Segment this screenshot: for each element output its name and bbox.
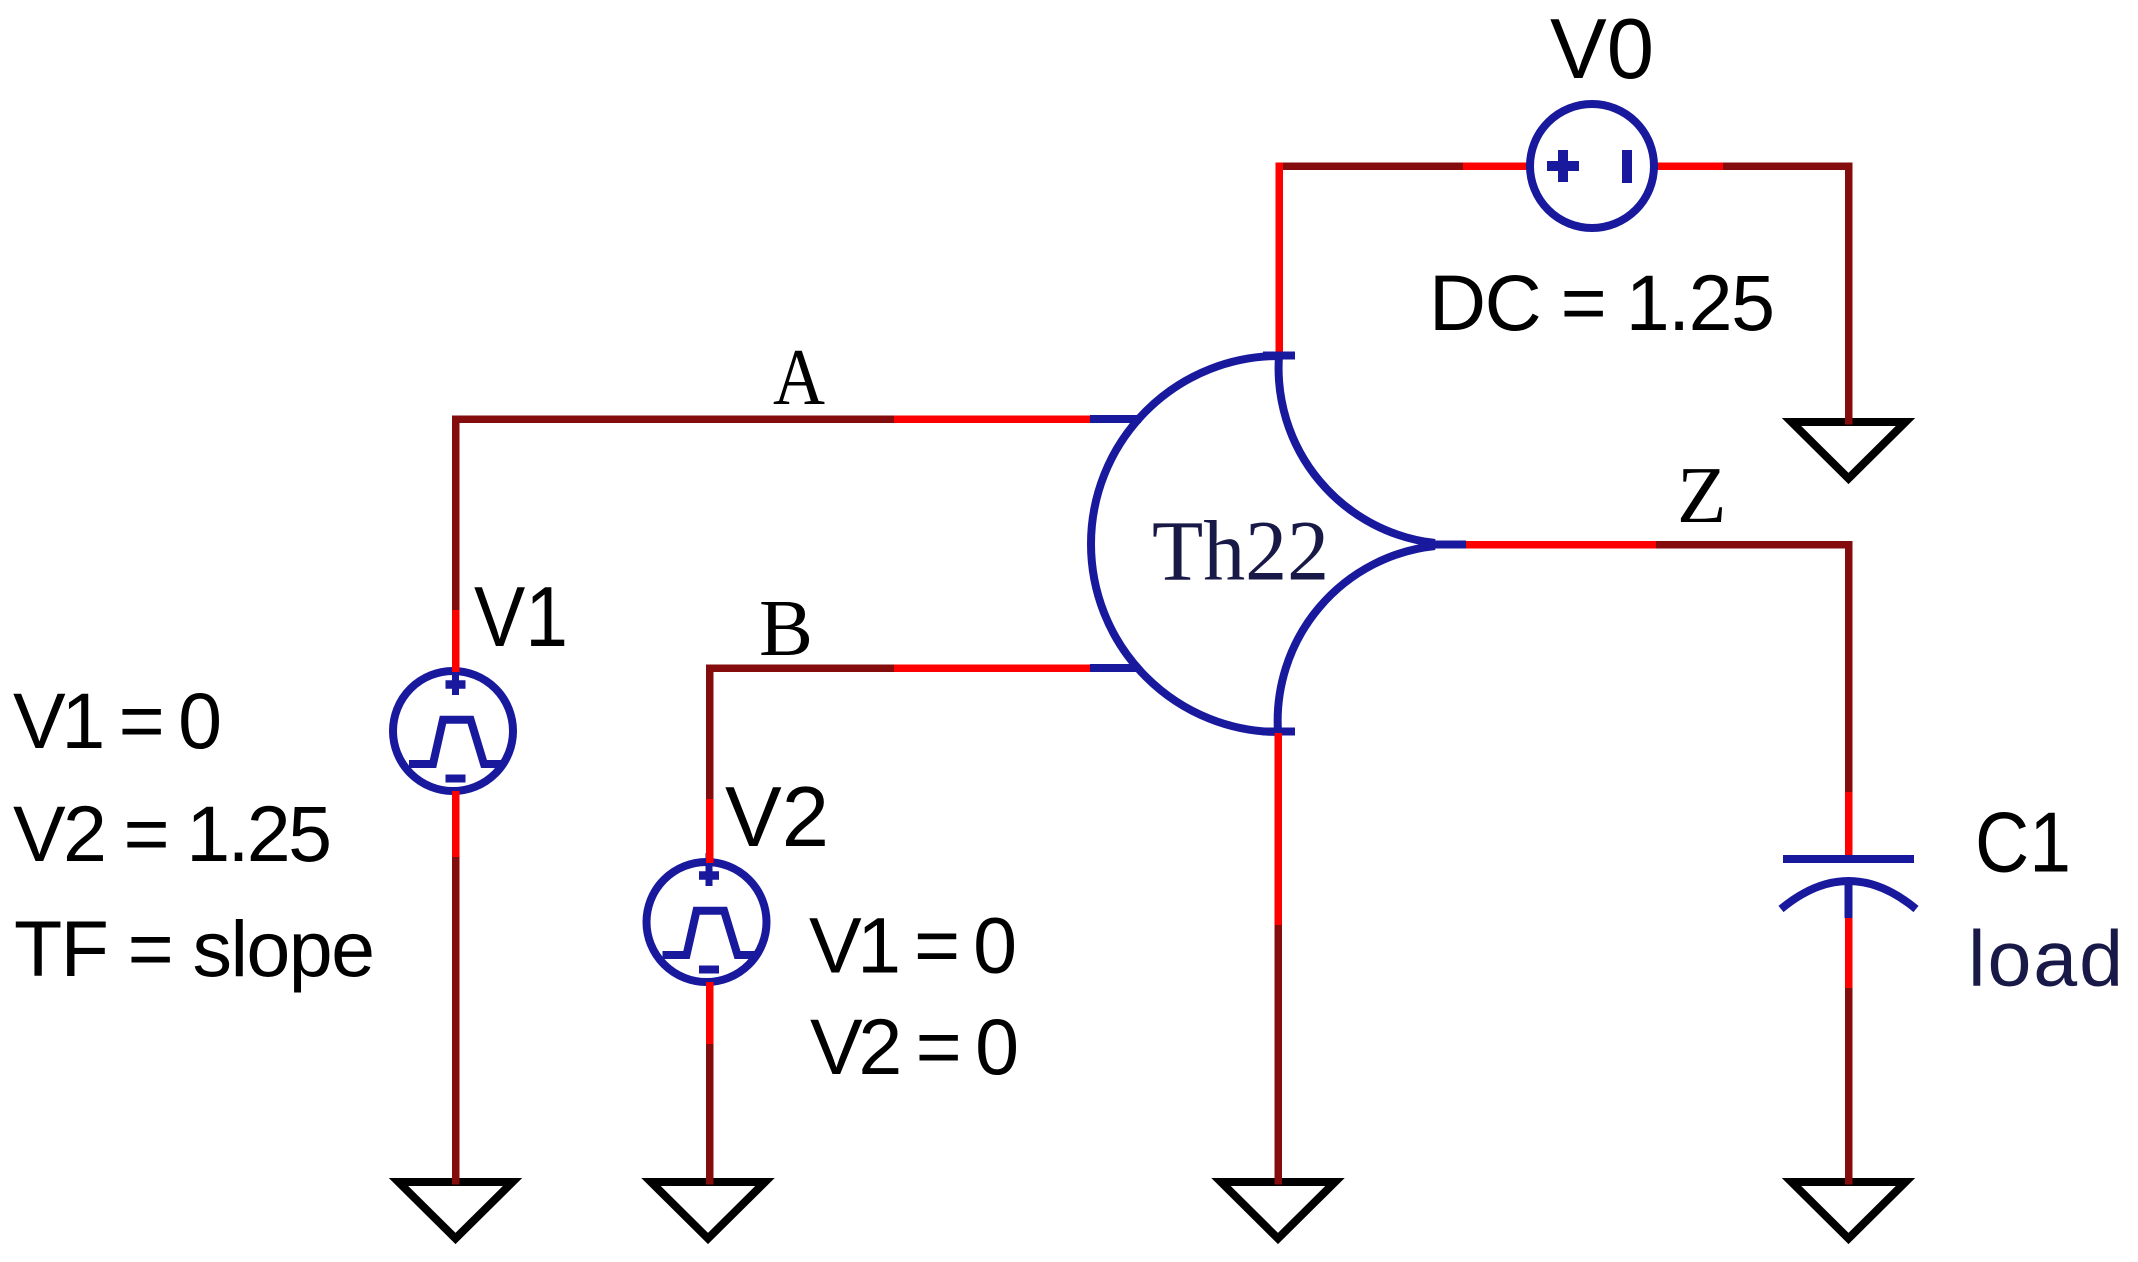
- wire tip: [1845, 416, 1853, 425]
- C1 red top pin: [1845, 792, 1853, 860]
- svg-text:V2: V2: [725, 770, 829, 865]
- wire: red Th22 bottom pin: [1274, 733, 1282, 925]
- ground under V0: [1792, 422, 1906, 479]
- svg-text:C1: C1: [1975, 796, 2071, 891]
- pulse source V2: [647, 853, 767, 982]
- wire A red pin segment: [894, 415, 1090, 423]
- wire tip: [1274, 1176, 1282, 1185]
- wire tip: [452, 1176, 460, 1185]
- V2 red top pin: [706, 799, 714, 863]
- wire A maroon segment with corner to V1: [456, 419, 895, 610]
- wire: maroon from V0 right to ground corner: [1723, 166, 1849, 420]
- svg-text:V2 = 1.25: V2 = 1.25: [13, 789, 332, 878]
- wire Z maroon to corner and down to C1: [1656, 545, 1849, 793]
- svg-text:Z: Z: [1677, 450, 1726, 540]
- wire: red Th22 top pin (vertical): [1275, 163, 1283, 356]
- wire tip: [706, 1176, 714, 1185]
- svg-text:V1 = 0: V1 = 0: [13, 676, 222, 765]
- svg-text:DC = 1.25: DC = 1.25: [1429, 258, 1775, 347]
- C-element Th22 body: [1091, 356, 1466, 733]
- V2 red bottom pin: [706, 982, 714, 1044]
- svg-text:TF = slope: TF = slope: [14, 904, 375, 993]
- wire maroon V2 to ground: [706, 1044, 714, 1180]
- wire: red V0 right pin: [1654, 162, 1723, 170]
- svg-text:V2 = 0: V2 = 0: [810, 1002, 1019, 1091]
- svg-text:A: A: [773, 332, 825, 422]
- wire B maroon segment with corner to V2: [710, 668, 895, 799]
- svg-text:B: B: [759, 583, 813, 673]
- svg-text:load: load: [1968, 914, 2123, 1003]
- svg-text:V1 = 0: V1 = 0: [809, 901, 1017, 990]
- wire tip: [1845, 1176, 1853, 1185]
- pulse source V1: [393, 662, 513, 791]
- ground under V2: [651, 1182, 765, 1239]
- ground under C1: [1792, 1182, 1906, 1239]
- V1 red top pin: [452, 610, 460, 672]
- C1 red bottom pin: [1845, 916, 1853, 988]
- svg-text:V0: V0: [1550, 2, 1654, 97]
- wire maroon V1 to ground: [452, 857, 460, 1180]
- capacitor C1: [1781, 859, 1916, 918]
- wire maroon Th22 bottom to ground: [1274, 925, 1282, 1180]
- wire top net: red V0 left pin: [1463, 162, 1530, 170]
- V1 red bottom pin: [452, 791, 460, 857]
- wire top net: maroon from corner to V0 left: [1279, 162, 1463, 170]
- wire B red pin segment: [894, 664, 1090, 672]
- ground under V1: [399, 1182, 513, 1239]
- voltage source V0: [1530, 104, 1654, 228]
- wire Z: red pin from Th22 tip: [1466, 541, 1656, 549]
- ground under Th22: [1221, 1182, 1335, 1239]
- pin B blue stub of Th22: [1090, 664, 1138, 672]
- svg-text:V1: V1: [474, 570, 568, 665]
- wire maroon C1 to ground: [1845, 988, 1853, 1180]
- svg-text:Th22: Th22: [1152, 503, 1329, 599]
- pin A blue stub of Th22: [1090, 415, 1141, 423]
